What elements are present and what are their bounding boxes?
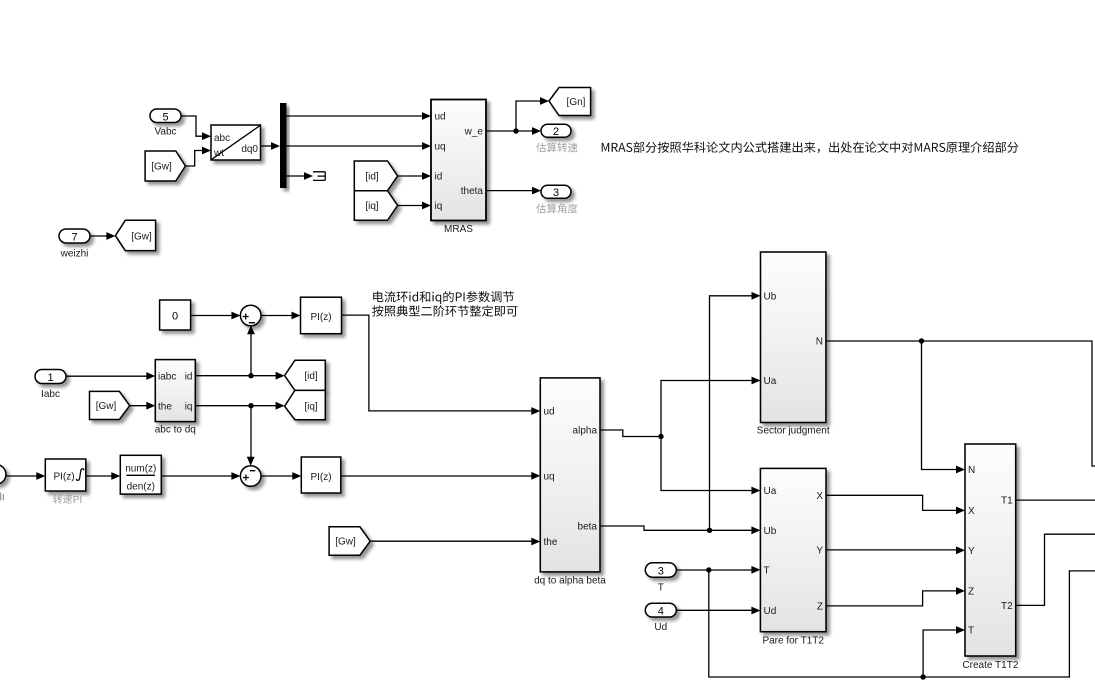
svg-text:[Gw]: [Gw]: [131, 231, 152, 242]
inport 5 Vabc: [150, 109, 181, 138]
wire: constant 0 to sum1: [191, 312, 240, 320]
wire: left edge sum to speed PI: [6, 472, 45, 480]
svg-text:T: T: [764, 565, 770, 576]
abc to dq0 transform block U-dq0: [211, 125, 261, 160]
wire: PI(z) current-q output to dq2alphabeta uq: [341, 472, 541, 480]
wire: Create T1 output to right edge: [1016, 499, 1095, 501]
svg-text:0: 0: [172, 311, 178, 323]
wire: alpha output, junction, branches to Sector Ua and Pare Ua: [600, 377, 761, 495]
svg-text:X: X: [968, 506, 975, 517]
subsystem Pare for T1T2: [760, 468, 826, 646]
svg-text:1: 1: [47, 372, 53, 384]
wire: inport 1 Iabc to abc-to-dq iabc: [66, 372, 155, 380]
terminator symbol: [313, 172, 325, 181]
wire: Pare Y to Create Y: [826, 546, 965, 554]
svg-text:Y: Y: [816, 545, 823, 556]
svg-text:N: N: [968, 465, 975, 476]
svg-text:Ud: Ud: [654, 622, 667, 633]
svg-text:uq: uq: [435, 142, 446, 153]
svg-text:T1: T1: [1001, 496, 1013, 507]
svg-text:[Gn]: [Gn]: [567, 97, 586, 108]
annotation: current loop PI tuning (Chinese, 2 lines): [372, 291, 517, 317]
svg-text:PI(z): PI(z): [310, 312, 331, 323]
wire: From [Gw] to abc-to-dq the: [130, 402, 156, 410]
svg-text:Vabc: Vabc: [154, 127, 176, 138]
wire: Sector N output, junction, to Create N and right edge loop: [826, 338, 1095, 473]
svg-text:PI(z): PI(z): [53, 472, 74, 483]
svg-text:the: the: [544, 537, 558, 548]
svg-text:[Gw]: [Gw]: [151, 162, 172, 173]
svg-text:Ub: Ub: [764, 291, 777, 302]
From tag [Gw] (to the of abc-to-dq): [90, 391, 130, 419]
inport 7 weizhi: [59, 229, 90, 260]
PI(z) current-d controller: [301, 297, 342, 334]
partial sum circle at left edge: [0, 465, 6, 485]
partial gray label at left edge: [1, 493, 4, 501]
svg-text:T2: T2: [1001, 601, 1013, 612]
subsystem dq to alpha beta: [534, 378, 606, 587]
svg-text:Ud: Ud: [764, 606, 777, 617]
svg-text:abc to dq: abc to dq: [155, 425, 196, 436]
svg-text:iabc: iabc: [158, 371, 176, 382]
svg-text:5: 5: [162, 111, 168, 123]
svg-text:den(z): den(z): [127, 482, 155, 493]
svg-text:N: N: [816, 336, 823, 347]
discrete transfer fcn num(z)/den(z): [120, 455, 161, 494]
wire: demux out1 to MRAS ud: [287, 112, 432, 120]
wire: MRAS w_e to outport 2 and Goto [Gn], junction: [486, 97, 549, 135]
gray label: estimated speed (Chinese): [536, 143, 577, 153]
wire: Pare X to Create X: [826, 495, 965, 514]
wire: inport 7 to Goto [Gw]: [90, 232, 115, 240]
sum1 (+ left, - bottom): [240, 305, 261, 326]
wire: inport 3 T to Pare T, junction, bottom run to Create T and right edge: [676, 566, 1095, 680]
svg-text:Iabc: Iabc: [41, 389, 60, 400]
svg-text:Ua: Ua: [764, 376, 777, 387]
svg-text:Z: Z: [817, 601, 823, 612]
From tag [Gw] (to the of dq2alphabeta): [329, 527, 370, 555]
svg-text:beta: beta: [578, 522, 598, 533]
svg-text:[id]: [id]: [304, 371, 318, 382]
Goto tag [iq]: [285, 390, 326, 419]
outport 3 (estimated angle): [541, 185, 571, 199]
wire: inport 5 to abc input of abc-dq0 transform: [181, 116, 211, 140]
sum2 (+ left, - top): [240, 466, 261, 487]
wire: From [id] to MRAS id: [398, 172, 431, 180]
svg-text:3: 3: [658, 565, 664, 577]
svg-text:iq: iq: [435, 201, 443, 212]
From tag [Gw] (to wt): [145, 151, 185, 181]
svg-text:PI(z): PI(z): [310, 472, 331, 483]
svg-text:3: 3: [553, 187, 559, 199]
wire: From [iq] to MRAS iq: [398, 202, 431, 210]
svg-text:7: 7: [71, 232, 77, 244]
svg-text:w_e: w_e: [464, 127, 484, 138]
inport 3 T: [645, 563, 676, 594]
gray label: speed PI (Chinese): [53, 494, 82, 505]
wire: speed PI to discrete transfer fcn: [86, 472, 121, 480]
svg-text:Ua: Ua: [764, 486, 777, 497]
wire: abc-to-dq id output to Goto [id], junction branch up to sum1: [195, 325, 284, 379]
Goto tag [Gw] (weizhi): [115, 220, 155, 250]
svg-text:theta: theta: [461, 186, 484, 197]
subsystem abc to dq: [155, 360, 196, 436]
svg-text:wt: wt: [213, 148, 224, 159]
svg-text:dq0: dq0: [241, 144, 258, 155]
wire: PI(z) current-d output to dq2alphabeta ud: [342, 315, 541, 415]
svg-text:PI: PI: [73, 495, 82, 506]
svg-text:Create T1T2: Create T1T2: [962, 660, 1018, 671]
svg-text:[iq]: [iq]: [304, 401, 318, 412]
wire: beta output, junction, branches to Sector Ub and Pare Ub: [600, 292, 761, 534]
wire: From [Gw] to dq2alphabeta the: [370, 538, 540, 546]
svg-text:uq: uq: [544, 471, 555, 482]
svg-text:T: T: [968, 625, 974, 636]
speed PI block PI(z) integral: [45, 459, 86, 491]
svg-text:Z: Z: [968, 586, 974, 597]
From tag [id] (to MRAS): [354, 161, 397, 191]
wire: MRAS theta to outport 3: [486, 187, 541, 195]
wire: demux out2 to MRAS uq: [287, 142, 432, 150]
Goto tag [Gn]: [549, 88, 591, 116]
svg-text:ud: ud: [435, 112, 446, 123]
demux (3 outputs): [280, 103, 287, 188]
svg-text:Ub: Ub: [764, 526, 777, 537]
svg-text:id: id: [185, 371, 193, 382]
svg-text:ud: ud: [544, 407, 555, 418]
svg-text:Sector judgment: Sector judgment: [757, 426, 830, 437]
svg-text:Pare for T1T2: Pare for T1T2: [762, 635, 824, 646]
svg-text:Y: Y: [968, 546, 975, 557]
svg-text:[id]: [id]: [365, 172, 379, 183]
inport 1 Iabc: [35, 370, 66, 401]
svg-text:id: id: [435, 172, 443, 183]
wire: Pare Z to Create Z: [826, 587, 965, 606]
From tag [iq] (to MRAS): [354, 191, 397, 221]
wire: abc-to-dq iq output to Goto [iq], junction branch down to sum2: [195, 402, 284, 466]
svg-text:num(z): num(z): [125, 464, 156, 475]
wire: Create T2 output to right edge: [1016, 534, 1095, 605]
svg-text:iq: iq: [185, 401, 193, 412]
wire: discrete transfer fcn to sum2: [161, 472, 240, 480]
Goto tag [id]: [285, 360, 326, 390]
wire: inport 4 Ud to Pare Ud: [676, 607, 760, 615]
svg-text:weizhi: weizhi: [60, 249, 89, 260]
wire: demux out3 to terminator: [287, 172, 314, 180]
svg-text:2: 2: [553, 126, 559, 138]
svg-text:X: X: [816, 491, 823, 502]
wire: abc-dq0 output to demux: [261, 142, 281, 150]
annotation: MRAS description (Chinese): [602, 142, 1019, 154]
svg-text:abc: abc: [214, 133, 230, 144]
inport 4 Ud: [645, 603, 676, 633]
subsystem MRAS: [431, 100, 486, 236]
svg-text:T: T: [658, 583, 664, 594]
svg-text:alpha: alpha: [573, 426, 598, 437]
svg-text:4: 4: [658, 605, 664, 617]
wire: From [Gw] to wt input of abc-dq0 transform: [185, 147, 211, 166]
subsystem Sector judgment: [757, 252, 830, 437]
wire: sum2 to PI(z) current-q: [261, 472, 301, 480]
wire: sum1 to PI(z) current-d: [261, 312, 301, 320]
subsystem Create T1T2: [962, 444, 1018, 671]
constant 0: [160, 300, 191, 330]
outport 2 (estimated speed): [541, 124, 571, 138]
svg-text:dq to alpha beta: dq to alpha beta: [534, 576, 606, 587]
svg-text:the: the: [158, 401, 172, 412]
svg-text:[iq]: [iq]: [365, 201, 379, 212]
PI(z) current-q controller: [301, 457, 341, 493]
svg-text:MRAS: MRAS: [444, 224, 473, 235]
svg-text:[Gw]: [Gw]: [96, 401, 117, 412]
svg-text:[Gw]: [Gw]: [335, 537, 356, 548]
gray label: estimated angle (Chinese): [536, 204, 577, 214]
